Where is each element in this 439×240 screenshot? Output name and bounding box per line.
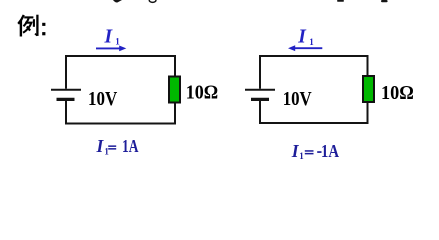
- svg-text:10V: 10V: [283, 88, 312, 110]
- svg-text:10Ω: 10Ω: [381, 82, 414, 104]
- svg-text:10V: 10V: [88, 88, 118, 110]
- svg-text:10Ω: 10Ω: [186, 81, 218, 103]
- svg-text:1: 1: [299, 151, 304, 161]
- svg-text:1: 1: [309, 37, 314, 47]
- svg-text:1A: 1A: [321, 141, 339, 161]
- svg-text:I: I: [297, 27, 307, 48]
- svg-text:1A: 1A: [122, 136, 139, 156]
- svg-text:1: 1: [115, 37, 120, 47]
- svg-text:I: I: [104, 27, 114, 48]
- svg-text:I: I: [96, 136, 105, 156]
